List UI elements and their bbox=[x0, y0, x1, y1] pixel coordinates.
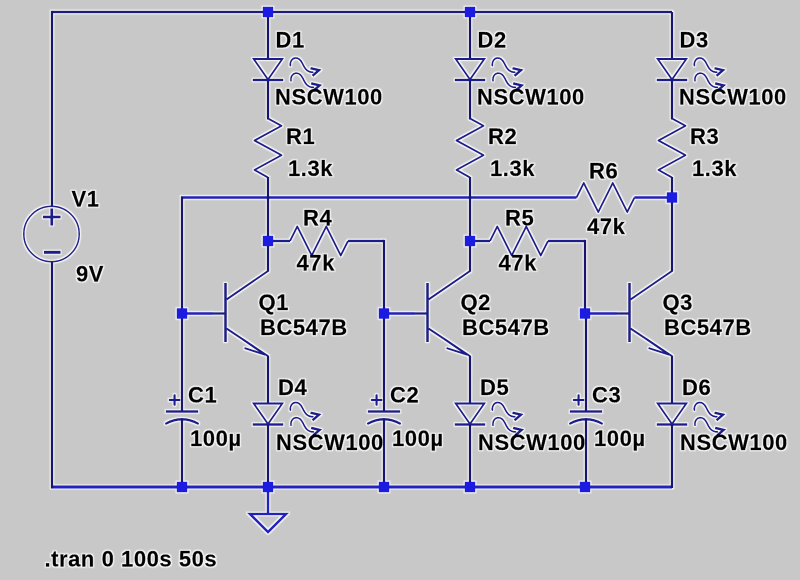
wire feedback row right segment bbox=[635, 196, 673, 199]
svg-text:47k: 47k bbox=[587, 214, 626, 239]
label Q2 bbox=[461, 290, 491, 315]
label D4 value NSCW100 bbox=[276, 430, 384, 455]
wire Q2 collector to R5 bbox=[470, 240, 490, 242]
svg-text:R4: R4 bbox=[303, 206, 332, 231]
transistor Q2 bbox=[414, 271, 470, 357]
label Q1 type BC547B bbox=[260, 315, 348, 340]
node junction top rail D2 bbox=[465, 7, 476, 18]
svg-text:1.3k: 1.3k bbox=[490, 156, 535, 181]
svg-text:D1: D1 bbox=[276, 28, 305, 53]
svg-text:R3: R3 bbox=[690, 124, 719, 149]
node junction top rail D1 bbox=[263, 7, 274, 18]
LED D6 bbox=[657, 402, 724, 435]
label R5 bbox=[505, 206, 534, 231]
label D3 value NSCW100 bbox=[679, 85, 787, 110]
label D3 bbox=[680, 28, 709, 53]
capacitor C3 bbox=[570, 395, 602, 423]
wire from top rail to D3 bbox=[671, 12, 673, 60]
node junction Q2 base bbox=[379, 308, 390, 319]
label R6 value 47k bbox=[587, 214, 626, 239]
wire D4 to ground rail bbox=[267, 425, 269, 489]
LED D5 bbox=[455, 402, 522, 435]
svg-text:D5: D5 bbox=[480, 375, 509, 400]
wire left supply lower segment bbox=[51, 262, 53, 489]
node junction Q3 collector bbox=[667, 192, 678, 203]
svg-text:47k: 47k bbox=[499, 251, 538, 276]
wire Q3 base bbox=[586, 312, 617, 315]
label D5 value NSCW100 bbox=[478, 430, 586, 455]
label C3 value 100µ bbox=[594, 426, 646, 451]
label 9V value bbox=[76, 262, 104, 287]
wire R5 to Q3 base drop bbox=[548, 240, 585, 242]
node junction Q2 collector bbox=[465, 236, 476, 247]
label Q1 bbox=[259, 290, 289, 315]
svg-text:47k: 47k bbox=[297, 251, 336, 276]
label R6 bbox=[589, 159, 618, 184]
label D5 bbox=[480, 375, 509, 400]
label D4 bbox=[278, 375, 307, 400]
label Q3 bbox=[663, 290, 693, 315]
node junction rail D4 bbox=[263, 482, 274, 493]
node junction rail C2 bbox=[379, 482, 390, 493]
wire D5 to ground rail bbox=[469, 425, 471, 489]
wire Q1 collector to R4 bbox=[268, 240, 290, 242]
label D6 value NSCW100 bbox=[680, 430, 788, 455]
label R1 value 1.3k bbox=[288, 156, 333, 181]
wire feedback row left segment bbox=[181, 196, 577, 199]
label R3 value 1.3k bbox=[692, 156, 737, 181]
label R2 bbox=[488, 124, 517, 149]
label Q3 type BC547B bbox=[664, 315, 752, 340]
svg-text:R2: R2 bbox=[488, 124, 517, 149]
svg-text:1.3k: 1.3k bbox=[692, 156, 737, 181]
wire R4 to Q2 base drop bbox=[348, 240, 384, 242]
label D1 bbox=[276, 28, 305, 53]
svg-text:Q2: Q2 bbox=[461, 290, 491, 315]
svg-text:NSCW100: NSCW100 bbox=[477, 85, 585, 110]
transistor Q1 bbox=[212, 271, 268, 357]
svg-text:R5: R5 bbox=[505, 206, 534, 231]
resistor R5 bbox=[490, 227, 548, 256]
wire R2 to collector node bbox=[469, 177, 471, 241]
svg-text:C2: C2 bbox=[390, 383, 419, 408]
spice directive .tran bbox=[45, 547, 218, 572]
label R4 value 47k bbox=[297, 251, 336, 276]
svg-text:NSCW100: NSCW100 bbox=[478, 430, 586, 455]
wire left supply upper segment bbox=[51, 11, 53, 207]
LED D3 bbox=[657, 58, 724, 91]
svg-text:NSCW100: NSCW100 bbox=[275, 85, 383, 110]
wire base node to C1 bbox=[181, 314, 183, 412]
wire D3 to R3 bbox=[671, 81, 673, 120]
svg-text:D3: D3 bbox=[680, 28, 709, 53]
wire Q2 emitter bbox=[469, 356, 471, 405]
wire bottom ground rail bbox=[52, 486, 672, 489]
resistor R3 bbox=[659, 119, 686, 178]
wire Q1 emitter bbox=[267, 356, 269, 405]
label D2 value NSCW100 bbox=[477, 85, 585, 110]
wire Q1 collector bbox=[267, 241, 269, 272]
node junction Q1 collector bbox=[263, 236, 274, 247]
svg-text:R1: R1 bbox=[286, 124, 315, 149]
capacitor C2 bbox=[368, 395, 400, 423]
wire R4 drop to Q2 base bbox=[383, 240, 385, 314]
wire R1 to collector node bbox=[267, 177, 269, 241]
wire top power rail bbox=[52, 11, 672, 13]
label D2 bbox=[478, 28, 507, 53]
svg-text:NSCW100: NSCW100 bbox=[276, 430, 384, 455]
label C1 value 100µ bbox=[190, 426, 242, 451]
wire from top rail to D2 bbox=[469, 12, 471, 60]
wire Q2 base bbox=[384, 312, 415, 315]
LED D4 bbox=[253, 402, 320, 435]
wire D6 to ground rail bbox=[671, 425, 673, 489]
label D6 bbox=[682, 375, 711, 400]
svg-text:D6: D6 bbox=[682, 375, 711, 400]
label Q2 type BC547B bbox=[462, 315, 550, 340]
wire ground stub bbox=[267, 487, 270, 514]
node junction rail D5 bbox=[465, 482, 476, 493]
wire C2 to ground rail bbox=[383, 420, 385, 489]
svg-text:BC547B: BC547B bbox=[664, 315, 752, 340]
label C2 value 100µ bbox=[392, 426, 444, 451]
node junction rail C3 bbox=[580, 482, 591, 493]
wire base node to C3 bbox=[585, 314, 587, 412]
label C3 bbox=[592, 383, 621, 408]
node junction Q3 base bbox=[580, 308, 591, 319]
svg-text:Q1: Q1 bbox=[259, 290, 289, 315]
label R1 bbox=[286, 124, 315, 149]
svg-text:9V: 9V bbox=[76, 262, 104, 287]
label V1 bbox=[72, 187, 100, 212]
wire C3 to ground rail bbox=[585, 420, 587, 489]
wire C1 to ground rail bbox=[181, 420, 183, 489]
wire D2 to R2 bbox=[469, 81, 471, 120]
svg-text:BC547B: BC547B bbox=[260, 315, 348, 340]
svg-text:D2: D2 bbox=[478, 28, 507, 53]
svg-text:1.3k: 1.3k bbox=[288, 156, 333, 181]
svg-text:Q3: Q3 bbox=[663, 290, 693, 315]
node junction Q1 base bbox=[177, 308, 188, 319]
wire Q1 base bbox=[182, 312, 213, 315]
resistor R4 bbox=[290, 227, 348, 256]
svg-text:V1: V1 bbox=[72, 187, 100, 212]
svg-text:D4: D4 bbox=[278, 375, 307, 400]
resistor R1 bbox=[255, 119, 282, 178]
label C1 bbox=[188, 383, 217, 408]
svg-text:NSCW100: NSCW100 bbox=[679, 85, 787, 110]
wire R3 to collector node bbox=[671, 177, 673, 198]
LED D2 bbox=[455, 58, 522, 91]
label R2 value 1.3k bbox=[490, 156, 535, 181]
capacitor C1 bbox=[166, 395, 198, 423]
svg-text:R6: R6 bbox=[589, 159, 618, 184]
resistor R2 bbox=[457, 119, 484, 178]
svg-text:100µ: 100µ bbox=[594, 426, 646, 451]
wire Q2 collector bbox=[469, 241, 471, 272]
svg-text:.tran 0 100s 50s: .tran 0 100s 50s bbox=[45, 547, 218, 572]
wire Q3 emitter bbox=[671, 356, 673, 405]
wire D1 to R1 bbox=[267, 81, 269, 120]
ground symbol bbox=[250, 514, 286, 532]
label R4 bbox=[303, 206, 332, 231]
wire Q3 collector bbox=[671, 198, 673, 272]
svg-text:C1: C1 bbox=[188, 383, 217, 408]
wire feedback drop to Q1 base bbox=[181, 197, 183, 314]
voltage source V1 bbox=[24, 206, 79, 261]
label C2 bbox=[390, 383, 419, 408]
node junction rail C1 bbox=[177, 482, 188, 493]
LED D1 bbox=[253, 58, 320, 91]
svg-text:BC547B: BC547B bbox=[462, 315, 550, 340]
svg-text:NSCW100: NSCW100 bbox=[680, 430, 788, 455]
svg-text:C3: C3 bbox=[592, 383, 621, 408]
wire base node to C2 bbox=[383, 314, 385, 412]
label R3 bbox=[690, 124, 719, 149]
label D1 value NSCW100 bbox=[275, 85, 383, 110]
transistor Q3 bbox=[616, 271, 672, 357]
resistor R6 bbox=[577, 183, 635, 212]
wire R5 drop to Q3 base bbox=[584, 240, 586, 314]
wire from top rail to D1 bbox=[267, 12, 269, 60]
svg-text:100µ: 100µ bbox=[190, 426, 242, 451]
svg-text:100µ: 100µ bbox=[392, 426, 444, 451]
label R5 value 47k bbox=[499, 251, 538, 276]
